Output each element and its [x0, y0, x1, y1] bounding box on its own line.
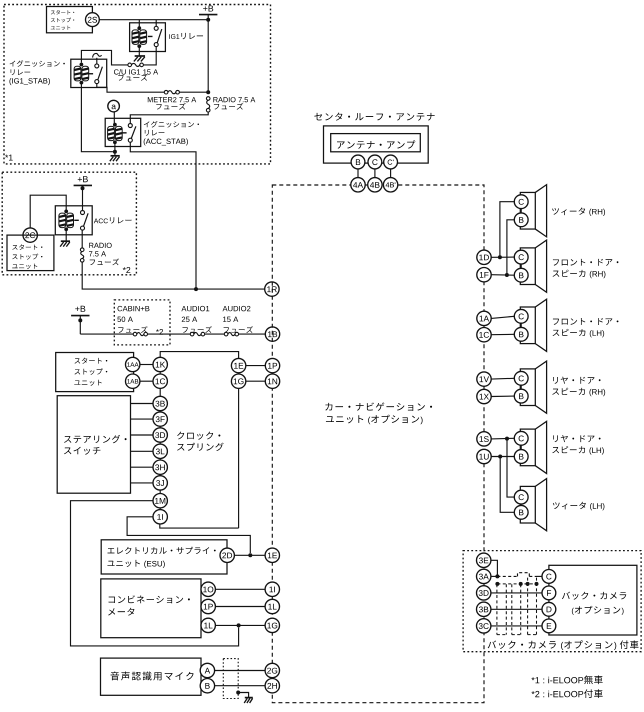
connector 1X — [477, 389, 491, 403]
label IG1 relay — [168, 34, 171, 39]
connector 1M — [153, 494, 167, 508]
wire 1I left to ESU splice — [127, 517, 250, 553]
relay coil IG1 — [137, 26, 141, 30]
wire 1G-1N — [246, 380, 265, 382]
note i-ELOOP *1 — [531, 677, 534, 680]
connector 3L — [153, 444, 167, 458]
connector F (camera) — [542, 586, 556, 600]
fuse RADIO 7.5A (block *1) — [206, 97, 210, 101]
wire IG1 switch to rail — [155, 20, 157, 27]
connector C (antenna) — [368, 155, 382, 169]
speaker tweeter LH — [520, 486, 535, 523]
label tweeter LH — [553, 502, 560, 509]
speaker tweeter RH — [520, 192, 535, 229]
connector C (tweeter RH) — [514, 195, 528, 209]
wire 3E to shield node — [491, 560, 498, 576]
connector 4A — [351, 178, 365, 192]
power +B (audio feed) — [75, 307, 79, 311]
connector B (rear LH) — [514, 450, 528, 464]
connector 1G (clock spring) — [231, 374, 245, 388]
dashed box *2 (ACC relay block, i-ELOOP tsuki) — [2, 172, 136, 275]
connector 1U — [477, 449, 491, 463]
connector 1A — [477, 311, 491, 325]
connector B (tweeter RH) — [514, 213, 528, 227]
antenna amp outer box — [324, 126, 429, 163]
wire +B rail down to fuse rail — [207, 20, 209, 93]
relay ACC_STAB box — [105, 118, 141, 146]
wire A-2G — [215, 670, 266, 672]
combination meter box — [101, 579, 201, 638]
wire 3D to F — [491, 592, 542, 594]
connector B (mic) — [200, 679, 214, 693]
relay IG1 box — [130, 23, 166, 52]
relay switch IG1_STAB — [95, 64, 99, 68]
wire RADIO fuse *2 down to 1R row — [82, 262, 264, 289]
ground under ACC_STAB — [111, 155, 120, 157]
wire 3B to D — [491, 608, 542, 610]
connector 3J — [153, 476, 167, 490]
wire 1L-1G with splice — [215, 624, 265, 626]
wire 1AA-1K — [140, 364, 153, 366]
shield dashes back camera cables — [497, 583, 536, 585]
wire IG1_STAB switch top w/ squiggle end — [96, 58, 98, 64]
wire tweeter RH B tap — [507, 220, 514, 275]
wire +B to fuses to 1B — [79, 316, 81, 335]
connector C (front LH) — [514, 309, 528, 323]
connector 1F — [477, 268, 491, 282]
steering switch box — [57, 396, 130, 494]
wire +B to ACC switch — [82, 185, 84, 210]
connector 1V — [477, 372, 491, 386]
start-stop unit box (column) — [56, 353, 134, 392]
shield box (mic cable) — [223, 659, 238, 699]
connector 3D (camera) — [477, 586, 491, 600]
label front door speaker LH — [553, 319, 559, 325]
wire shield to ground — [236, 691, 240, 695]
connector 1I (nav) — [265, 582, 279, 596]
label rear door speaker LH — [553, 435, 558, 442]
connector 2C — [23, 228, 37, 242]
connector 3B — [153, 396, 167, 410]
wire 1O-1I — [215, 588, 265, 590]
connector 3D — [153, 428, 167, 442]
wire 1P-1L — [215, 606, 265, 608]
start-stop unit box (top) — [47, 7, 93, 33]
label tweeter RH — [552, 208, 559, 215]
dashed box *1 (ignition relay block, i-ELOOP nashi) — [4, 5, 271, 164]
fuse RADIO 7.5A (block *2) — [80, 248, 84, 252]
wire RADIO fuse to ACC_STAB switch — [130, 112, 208, 123]
wire ACC coil to ground — [65, 229, 67, 241]
wire 1C to front LH B — [491, 333, 514, 335]
wire 1D to front RH C — [491, 256, 514, 258]
ground (mic shield) — [245, 697, 253, 699]
label fuse AUDIO1 — [181, 306, 186, 311]
wire clock-spring right column 1E-1G and down — [238, 366, 240, 528]
label car navigation unit — [325, 403, 332, 411]
wire 1X to rear RH B — [491, 395, 514, 397]
connector D (camera) — [542, 602, 556, 616]
relay switch ACC_STAB — [128, 124, 132, 128]
wire fuse to IG1_STAB coil — [81, 50, 128, 65]
fuse AUDIO2 15A — [224, 332, 228, 336]
connector 3B (camera) — [477, 602, 491, 616]
label center roof antenna — [314, 113, 322, 120]
connector C (front RH) — [514, 250, 528, 264]
connector 1O — [201, 582, 215, 596]
relay ACC box — [55, 206, 92, 235]
dotted box CABIN+B fuse *2 — [114, 300, 170, 345]
wire IG1 coil to rail — [138, 20, 140, 29]
wire 2D to 1E — [234, 554, 265, 556]
label back camera option fitted — [488, 641, 496, 649]
connector C (camera) — [542, 570, 556, 584]
wire 1S to rear LH C — [491, 437, 514, 440]
wire IG1_STAB switch to METER2 fuse rail — [97, 84, 165, 93]
fuse AUDIO1 25A — [190, 332, 194, 336]
power +B (top) — [203, 6, 207, 10]
label fuse AUDIO2 — [223, 306, 228, 311]
wire 3C to E — [491, 625, 542, 627]
wire 1K up over to 1E — [160, 352, 238, 359]
speaker rear door LH — [520, 429, 535, 466]
connector B (antenna) — [351, 155, 365, 169]
connector 1N (nav) — [265, 374, 279, 388]
wire 1G down to 1I — [160, 524, 239, 528]
wire 1F to front RH B — [491, 274, 514, 277]
wire 2S to +B rail — [99, 19, 208, 21]
connector A (mic) — [200, 663, 214, 677]
label ACC relay — [94, 219, 99, 224]
connector C (rear RH) — [514, 371, 528, 385]
connector 2D — [220, 548, 234, 562]
wire IG1_STAB coil to ACC_STAB ground node — [81, 83, 113, 152]
ground under ACC relay — [61, 240, 70, 242]
dotted box back camera option fitted — [463, 551, 641, 652]
connector 1AB — [126, 374, 140, 388]
connector 2H — [265, 679, 279, 693]
connector 1K — [153, 357, 167, 371]
connector 1C (front LH) — [477, 328, 491, 342]
connector 4B — [368, 178, 382, 192]
connector 1E (clock spring) — [231, 358, 245, 372]
connector 1L (meter) — [201, 618, 215, 632]
connector B (front RH) — [514, 268, 528, 282]
dashed boundary car navigation unit (option) — [272, 185, 484, 703]
connector C2 (antenna) — [384, 155, 398, 169]
wire 1M to combination meter splice — [71, 501, 239, 646]
start-stop unit box (ACC block) — [7, 235, 54, 271]
connector 2G — [265, 663, 279, 677]
power +B (ACC block) — [78, 177, 82, 181]
connector 1P (nav) — [265, 358, 279, 372]
connector 1B — [265, 327, 279, 341]
wires steering switch to clock spring pins — [131, 403, 154, 405]
connector 1L (nav) — [265, 599, 279, 613]
connector 1C (clock spring) — [153, 374, 167, 388]
ground under IG1 relay — [135, 55, 145, 57]
label ignition relay IG1_STAB — [10, 61, 16, 67]
back camera box — [549, 565, 637, 635]
relay IG1_STAB box — [71, 59, 107, 87]
wire a to ACC_STAB coil — [113, 112, 115, 123]
speaker front door LH — [520, 307, 535, 344]
connector 3H — [153, 460, 167, 474]
wire IG1 coil to ground — [138, 46, 140, 56]
wire 1A to front LH C — [491, 316, 514, 318]
connector E (camera) — [542, 619, 556, 633]
wire 1V to rear RH C — [491, 377, 514, 380]
label ignition relay ACC_STAB — [144, 121, 150, 127]
speaker rear door RH — [520, 369, 535, 406]
label clock spring — [177, 432, 184, 440]
connector 3C (camera) — [477, 619, 491, 633]
connector 3A — [477, 569, 491, 583]
relay switch ACC — [81, 211, 85, 215]
wire ACC_STAB switch to node 1R — [130, 142, 196, 289]
relay coil ACC_STAB — [113, 123, 117, 127]
connector C (rear LH) — [514, 431, 528, 445]
connector 4B2 — [383, 178, 397, 192]
connector B (tweeter LH) — [514, 505, 528, 519]
relay coil IG1_STAB — [80, 63, 84, 67]
wire tweeter LH B tap — [500, 457, 514, 513]
label front door speaker RH — [553, 259, 559, 265]
connector 1R — [265, 282, 279, 296]
test point a — [108, 100, 120, 112]
fuse METER2 7.5A — [164, 90, 168, 94]
connector 1S — [477, 432, 491, 446]
electrical supply unit box (ESU) — [101, 540, 227, 574]
wire B-2H — [215, 685, 266, 687]
wire clock-spring pin chain (left column) — [159, 365, 161, 517]
wire 1U to rear LH B — [491, 456, 514, 458]
label rear door speaker RH — [553, 377, 558, 384]
relay switch IG1 — [154, 26, 158, 30]
wire 1E-1P — [246, 365, 265, 367]
wire ACC_STAB coil to ground — [114, 142, 116, 156]
connector 1I (clock spring) — [153, 510, 167, 524]
wire antenna pins — [357, 169, 359, 178]
connector 1G (nav) — [265, 618, 279, 632]
wire 3A to C (shield drain) — [491, 575, 498, 577]
wire tweeter RH C tap — [500, 202, 514, 258]
connector 2S — [86, 13, 100, 27]
connector 1D — [477, 250, 491, 264]
connector C (tweeter LH) — [514, 490, 528, 504]
connector B (rear RH) — [514, 389, 528, 403]
connector 3E — [477, 553, 491, 567]
wire tweeter LH C tap — [507, 439, 514, 498]
fuse CABIN+B 50A — [133, 332, 137, 336]
fuse C/U IG1 15A — [128, 63, 132, 67]
wire IG1 switch to fuse C/U IG1 — [143, 47, 156, 65]
antenna amp inner box — [331, 134, 421, 152]
connector 1AA — [126, 357, 140, 371]
wire ACC switch to RADIO fuse — [81, 230, 83, 248]
voice recognition mic box — [101, 658, 202, 695]
relay coil ACC — [64, 210, 68, 214]
wire ACC coil to 2C — [30, 195, 66, 228]
speaker front door RH — [520, 248, 535, 285]
connector 1P (meter) — [201, 599, 215, 613]
connector 1E (nav) — [265, 548, 279, 562]
wire 1AB-1C — [140, 380, 153, 382]
note i-ELOOP *2 — [531, 691, 534, 694]
connector 3F — [153, 412, 167, 426]
connector B (front LH) — [514, 327, 528, 341]
